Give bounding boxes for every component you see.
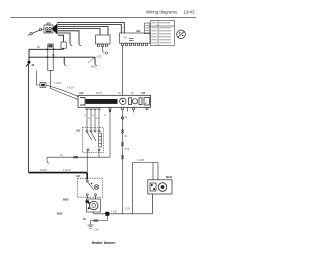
svg-text:A17: A17 [76,175,81,178]
svg-text:31: 31 [32,63,36,67]
svg-text:6H10: 6H10 [166,176,173,179]
svg-text:4 G1 R: 4 G1 R [63,169,71,172]
svg-text:6H32: 6H32 [57,214,63,216]
svg-text:1.5 B: 1.5 B [125,209,131,211]
svg-text:A11: A11 [136,30,141,33]
svg-text:A14: A14 [79,92,84,95]
svg-text:1.5 B: 1.5 B [111,211,117,214]
svg-text:30 15: 30 15 [96,93,102,95]
svg-text:G10: G10 [94,229,99,232]
svg-text:A15: A15 [141,92,146,95]
svg-text:6H30: 6H30 [63,200,69,202]
svg-text:A12: A12 [76,130,81,133]
svg-text:4 G1 R: 4 G1 R [67,88,75,90]
svg-text:Heater blower: Heater blower [92,241,116,245]
svg-text:12•43: 12•43 [184,10,196,15]
svg-text:G: G [84,115,86,117]
svg-text:A13: A13 [97,55,102,59]
svg-text:Wiring diagrams: Wiring diagrams [146,10,177,15]
svg-text:4 G1 R: 4 G1 R [54,83,62,85]
svg-text:1 G4 B: 1 G4 B [137,160,145,162]
svg-text:6 H31: 6 H31 [40,168,47,172]
svg-text:0.75: 0.75 [125,149,130,151]
svg-text:6H11: 6H11 [91,66,97,69]
